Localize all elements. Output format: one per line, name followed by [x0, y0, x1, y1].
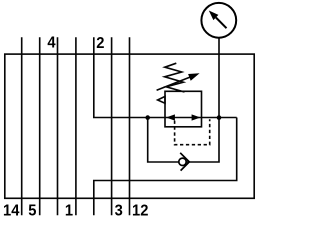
regulator arrow left: [166, 114, 175, 120]
port line 4: [57, 37, 59, 215]
svg-text:14: 14: [3, 202, 20, 220]
port line 1: [75, 37, 77, 215]
vent triangle: [158, 96, 165, 103]
svg-text:4: 4: [47, 34, 56, 52]
adjust arrow head: [188, 73, 200, 80]
svg-text:2: 2: [96, 34, 104, 52]
pilot line dashed: [175, 119, 210, 144]
regulator arrow right: [192, 114, 201, 120]
svg-text:1: 1: [65, 202, 74, 220]
svg-text:3: 3: [115, 202, 123, 220]
label 5: [28, 202, 37, 220]
port line 12: [129, 37, 131, 215]
gauge stem: [218, 38, 220, 117]
label 12: [132, 202, 148, 220]
check valve seat: [180, 153, 189, 171]
gauge needle shaft: [216, 18, 227, 29]
wire port 2 to regulator inlet: [94, 37, 165, 117]
label 4: [47, 34, 56, 52]
wire check valve branch: [148, 118, 219, 163]
label 2: [96, 34, 104, 52]
gauge needle head: [209, 11, 219, 21]
junction node B: [217, 115, 222, 120]
junction node A: [145, 115, 150, 120]
port line 14: [21, 37, 23, 215]
wire flow line through regulator: [165, 117, 237, 119]
port line 5: [39, 37, 41, 215]
svg-text:5: 5: [28, 202, 37, 220]
regulator U1 body: [165, 91, 202, 127]
port line 3: [111, 37, 113, 215]
svg-text:12: 12: [132, 202, 148, 220]
label 3: [115, 202, 123, 220]
check valve V1 ball: [179, 158, 186, 165]
label 14: [3, 202, 20, 220]
adjust arrow shaft: [157, 77, 190, 90]
spring: [165, 63, 185, 92]
label 1: [65, 202, 74, 220]
gauge P1 dial: [201, 3, 236, 38]
wire regulator outlet down and left: [94, 118, 237, 216]
